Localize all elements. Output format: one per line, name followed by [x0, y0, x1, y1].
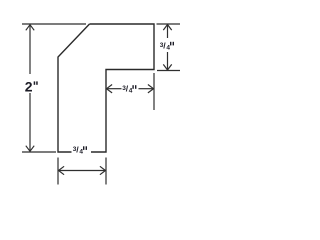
dimension D4 right arrowhead [100, 166, 106, 174]
svg-text:2: 2 [25, 79, 33, 95]
dimension D1 bottom arrowhead [26, 146, 34, 152]
dimension D1 line upper segment [29, 25, 31, 74]
dimension D1 top arrowhead [26, 25, 34, 31]
dimension D2 bottom extension line [157, 70, 180, 72]
dimension D4 right extension line [105, 158, 107, 185]
dimension D2 (3/4 inch right) top extension line [157, 23, 181, 25]
dimension D4 left arrowhead [59, 166, 65, 174]
dimension D2 label 3/4" [160, 40, 174, 51]
dimension D3 (3/4 inch middle) line left segment [107, 88, 122, 90]
dimension D2 line upper segment [167, 25, 169, 38]
dimension D3 extension line [153, 73, 155, 110]
dimension D1 line lower segment [29, 93, 31, 151]
dimension D4 (3/4 inch bottom) left extension line [57, 158, 59, 185]
dimension D2 line lower segment [167, 52, 169, 70]
dimension D3 line right segment [139, 88, 154, 90]
svg-text:4: 4 [129, 88, 133, 95]
dimension D2 top arrowhead [163, 25, 171, 31]
dimension D4 label 3/4" [73, 144, 87, 155]
dimension D1 (2 inch) top extension line [22, 23, 86, 25]
svg-text:4: 4 [79, 149, 83, 156]
dimension D3 label 3/4" [122, 83, 136, 94]
dimension D3 right arrowhead [148, 85, 154, 93]
moulding profile outline [58, 24, 154, 152]
svg-text:4: 4 [166, 45, 170, 52]
dimension D1 bottom extension line [22, 151, 56, 153]
dimension D3 left arrowhead [107, 85, 113, 93]
dimension D2 bottom arrowhead [163, 64, 171, 70]
dimension D4 line [59, 170, 105, 172]
